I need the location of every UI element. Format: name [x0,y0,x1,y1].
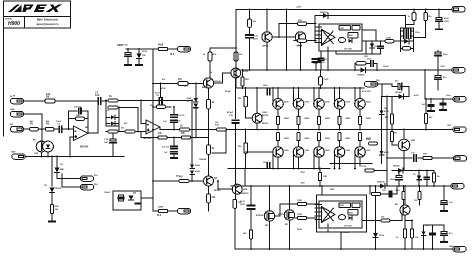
svg-text:4u7F: 4u7F [414,94,419,97]
svg-text:100R: 100R [386,38,391,40]
svg-text:uPC1237: uPC1237 [344,226,352,228]
svg-text:10R: 10R [323,176,327,178]
svg-text:56R: 56R [245,79,249,81]
svg-text:-: - [147,123,148,127]
svg-text:H900: H900 [8,21,20,27]
svg-text:560R: 560R [297,229,302,231]
svg-text:47uF 25V: 47uF 25V [362,90,371,93]
svg-text:BD139: BD139 [242,71,249,73]
svg-text:ZD150: ZD150 [55,188,62,190]
svg-text:(D): (D) [133,193,136,195]
svg-text:10R: 10R [393,133,397,135]
svg-text:LDR: LDR [34,153,39,155]
svg-text:47uF 63V: 47uF 63V [119,44,128,47]
svg-text:100n: 100n [263,85,268,87]
svg-text:uPC1237: uPC1237 [341,232,350,234]
svg-text:NE5534: NE5534 [80,146,89,149]
svg-text:uPC1237: uPC1237 [344,48,352,50]
svg-text:MJE350: MJE350 [241,193,249,195]
svg-text:100n: 100n [415,32,420,34]
svg-text:4007: 4007 [60,168,66,171]
svg-text:15V: 15V [142,55,146,57]
svg-text:V.REF: V.REF [340,28,344,30]
svg-text:apex@eunet.rs: apex@eunet.rs [36,22,58,26]
svg-text:470pF: 470pF [227,111,234,114]
svg-text:1uF: 1uF [104,142,109,144]
svg-text:-: - [75,129,76,133]
svg-text:GND: GND [449,246,454,248]
svg-text:2nF C2: 2nF C2 [74,107,82,109]
svg-text:BD140: BD140 [214,189,221,192]
svg-text:SR5100: SR5100 [320,12,328,14]
svg-text:100V: 100V [240,204,245,206]
svg-text:100R: 100R [297,200,302,202]
svg-text:+: + [147,129,149,133]
svg-text:1N4002: 1N4002 [357,74,365,77]
svg-text:220R: 220R [158,207,164,209]
svg-text:-55V: -55V [300,183,305,185]
svg-text:10k: 10k [46,92,51,96]
svg-text:PL3: PL3 [157,215,162,217]
svg-text:100nF: 100nF [104,192,111,194]
svg-text:47uF: 47uF [253,35,259,38]
svg-text:GND: GND [10,109,15,111]
svg-text:BD: BD [395,204,399,206]
svg-text:1N4148: 1N4148 [199,158,207,161]
svg-text:100u: 100u [443,54,448,56]
svg-text:4k99: 4k99 [158,44,164,47]
svg-text:100R: 100R [297,214,302,216]
svg-text:100V: 100V [444,21,449,23]
svg-text:+15V: +15V [440,66,445,68]
svg-text:PL2: PL2 [170,54,175,56]
svg-text:2n2 C12: 2n2 C12 [162,147,169,149]
svg-text:SR5100: SR5100 [377,182,385,184]
svg-text:7k15: 7k15 [324,79,330,81]
svg-text:MJE: MJE [411,140,416,142]
svg-text:100R: 100R [262,112,267,114]
svg-text:IRFP240: IRFP240 [278,213,285,216]
svg-text:47uF: 47uF [161,87,166,90]
svg-text:UF5401: UF5401 [393,165,400,168]
svg-text:47uF C9: 47uF C9 [177,114,184,117]
svg-text:100n: 100n [395,190,400,192]
svg-text:47uF: 47uF [240,200,246,203]
svg-text:IRFP240: IRFP240 [256,214,263,217]
svg-text:100n: 100n [367,59,372,61]
svg-text:100n: 100n [313,63,318,65]
svg-text:82R: 82R [298,20,302,22]
svg-text:10R: 10R [364,56,368,58]
svg-text:NE5532: NE5532 [143,138,152,140]
svg-text:C7: C7 [95,91,99,95]
svg-text:P2 5k: P2 5k [361,166,367,168]
svg-text:MPSA: MPSA [263,45,269,48]
svg-text:UF5401: UF5401 [395,91,403,94]
svg-text:100nF: 100nF [383,66,390,68]
svg-text:220R: 220R [366,139,371,141]
svg-text:10uF: 10uF [56,121,62,123]
svg-text:82R: 82R [298,45,302,47]
svg-text:100V: 100V [253,38,258,40]
svg-text:47uF: 47uF [444,17,450,20]
svg-text:470pF: 470pF [225,90,232,93]
svg-text:V.REF: V.REF [340,205,344,207]
svg-text:100uF: 100uF [390,179,396,181]
svg-text:25V: 25V [321,62,325,64]
svg-text:100n: 100n [446,95,451,97]
svg-text:BD140: BD140 [202,86,209,89]
svg-text:10R: 10R [423,154,427,156]
svg-text:GND: GND [330,189,335,191]
svg-text:+: + [75,135,77,139]
svg-text:BD139: BD139 [262,123,269,125]
svg-text:+55V: +55V [296,7,302,9]
svg-text:100n: 100n [263,162,268,164]
svg-text:BD139: BD139 [262,115,269,117]
svg-text:GND: GND [11,152,16,154]
svg-text:MJE: MJE [243,189,248,191]
